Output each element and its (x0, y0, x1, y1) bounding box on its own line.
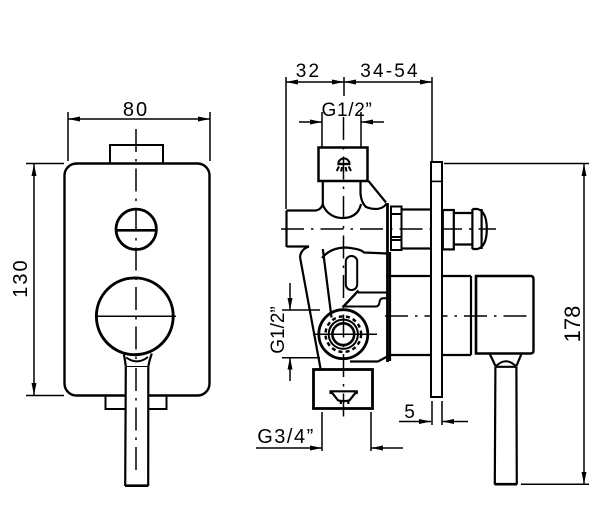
port circle mid (329, 320, 358, 349)
upper pipe centerline (281, 228, 496, 230)
lever grip side (495, 367, 517, 485)
handle flare (490, 355, 521, 367)
chamfer to cylinder (378, 355, 391, 362)
diagonal from box corner (369, 181, 387, 203)
wedge diagonal outer (300, 257, 321, 369)
dimension 80 text (123, 99, 149, 121)
capsule slot (346, 256, 357, 290)
dimension 178 text (560, 306, 585, 343)
svg-text:130: 130 (10, 258, 32, 297)
body saddle curve (323, 204, 362, 218)
diverter slot (116, 229, 156, 232)
left body fillet (300, 247, 309, 258)
dimension 80 line (68, 112, 210, 161)
top dimension line (286, 77, 432, 209)
shower icon (337, 158, 351, 171)
svg-text:5: 5 (404, 402, 415, 423)
G3/4 text (257, 426, 315, 448)
hex nut block (391, 207, 402, 251)
dimension 32 text (296, 61, 322, 82)
nipple pipe (454, 212, 473, 214)
wedge diagonal inner (323, 249, 332, 318)
funnel symbol (330, 391, 358, 404)
step shape (345, 298, 388, 306)
inlet pipe left (285, 211, 287, 248)
port circle bore (332, 323, 354, 345)
top tab (110, 145, 163, 164)
handle circle (96, 278, 173, 355)
dimension 130 text (10, 258, 32, 297)
bottom tab (106, 396, 167, 410)
boss crest curve (322, 248, 387, 259)
svg-text:80: 80 (123, 99, 149, 121)
pipe through wall (402, 208, 432, 210)
dimension 130 line (26, 164, 64, 396)
lever bar front (125, 367, 148, 486)
dimension 5 lines (399, 401, 468, 425)
port circle outer (319, 310, 368, 359)
diverter button circle (116, 209, 156, 249)
port crosshair (313, 333, 377, 335)
body bottom edge (350, 360, 378, 362)
wall plate front (65, 164, 210, 396)
shoulder curve right (361, 194, 387, 209)
dimension 5 text (404, 402, 415, 423)
body right edge (386, 203, 389, 362)
cylinder body (389, 276, 472, 355)
G1/2 top text (321, 100, 372, 121)
nipple collar (443, 210, 454, 249)
handle crosshair (95, 315, 176, 317)
neck below box (322, 181, 324, 205)
port circle thread dashed (326, 316, 362, 352)
svg-text:178: 178 (560, 306, 585, 343)
lower cylinder centerline (385, 315, 533, 317)
main vertical centerline (343, 117, 345, 423)
G1/2 left rotated text (268, 306, 289, 354)
svg-text:32: 32 (296, 61, 322, 82)
dimension 178 lines (444, 164, 589, 485)
wall plate side (431, 162, 442, 397)
G1/2 top arrows (299, 112, 384, 147)
G3/4 dimension (256, 412, 403, 451)
svg-text:34-54: 34-54 (360, 61, 420, 82)
svg-text:G1/2”: G1/2” (268, 306, 289, 354)
svg-text:G1/2”: G1/2” (321, 100, 372, 121)
G1/2 left arrows (282, 283, 320, 381)
nipple end cap (472, 209, 486, 249)
front centerline vertical (135, 129, 137, 470)
ledge line (358, 292, 388, 294)
lever neck front (124, 355, 126, 367)
outlet box bottom (314, 370, 373, 409)
svg-text:G3/4”: G3/4” (257, 426, 315, 448)
dimension 34-54 text (360, 61, 420, 82)
handle escutcheon (476, 276, 534, 354)
shower outlet box (319, 148, 368, 182)
